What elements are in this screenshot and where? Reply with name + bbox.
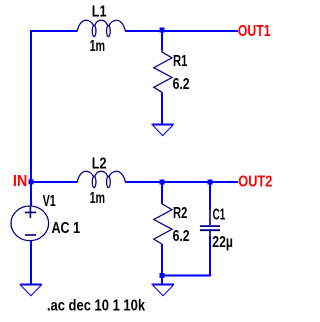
wire left vertical rail [30,30,32,206]
resistor R1 [154,51,172,92]
wire R2 junction to ground [161,275,163,285]
svg-text:L1: L1 [92,3,107,20]
svg-text:1m: 1m [90,190,106,207]
wire bottom connecting R2 and C1 [161,275,210,277]
node junction at L2/R2 [160,180,165,185]
wire R1 bottom lead [161,92,163,124]
ground under R2/C1 [151,284,174,296]
wire R2 bottom lead [161,244,163,275]
wire C1 top lead [209,182,211,210]
node junction at C1 top [208,180,213,185]
wire row2 rail right segment to OUT2 [125,181,238,183]
svg-text:R2: R2 [173,205,187,222]
svg-text:AC 1: AC 1 [52,220,81,237]
wire row2 rail left segment [31,181,78,183]
voltage source V1 [11,206,49,241]
svg-text:OUT2: OUT2 [238,173,272,190]
wire top rail right segment to OUT1 [125,30,238,32]
svg-text:C1: C1 [213,207,226,224]
wire C1 bottom lead [209,236,211,277]
wire R1 top lead [161,30,163,51]
ground under V1 [19,284,41,296]
node junction at R2 bottom [160,273,165,278]
svg-text:.ac dec 10 1 10k: .ac dec 10 1 10k [47,298,146,315]
svg-text:IN: IN [13,173,28,190]
svg-text:6.2: 6.2 [173,76,190,93]
svg-text:OUT1: OUT1 [238,23,271,40]
node junction IN [29,179,34,184]
svg-text:R1: R1 [173,53,188,70]
svg-text:L2: L2 [92,155,107,172]
wire V1 bottom lead [30,241,32,285]
wire R2 top lead [161,182,163,204]
svg-text:V1: V1 [43,193,57,210]
inductor L2 [77,171,125,187]
node junction at L1/R1 [160,28,165,33]
svg-text:1m: 1m [90,38,106,55]
wire top rail left segment [30,30,78,32]
capacitor C1 [200,210,220,237]
inductor L1 [77,20,125,36]
ground under R1 [151,124,173,136]
svg-text:22µ: 22µ [212,234,233,251]
resistor R2 [154,203,172,244]
svg-text:6.2: 6.2 [173,228,190,245]
